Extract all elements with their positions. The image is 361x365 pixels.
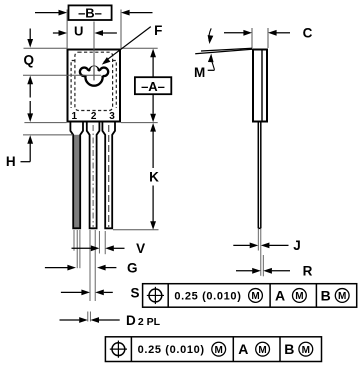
svg-text:B: B <box>321 287 331 303</box>
svg-text:F: F <box>154 23 162 38</box>
svg-text:U: U <box>74 23 83 38</box>
svg-text:M: M <box>251 291 259 302</box>
svg-text:2: 2 <box>91 111 97 122</box>
svg-text:R: R <box>303 263 313 278</box>
svg-text:2 PL: 2 PL <box>138 316 161 328</box>
svg-text:D: D <box>126 313 136 328</box>
svg-text:V: V <box>136 241 145 256</box>
svg-text:1: 1 <box>72 111 78 122</box>
svg-text:S: S <box>130 285 139 300</box>
svg-text:Q: Q <box>24 52 35 67</box>
svg-text:M: M <box>258 345 266 356</box>
svg-text:M: M <box>302 345 310 356</box>
svg-text:A: A <box>238 341 248 357</box>
svg-text:C: C <box>303 26 313 41</box>
svg-text:M: M <box>215 345 223 356</box>
svg-text:–B–: –B– <box>78 6 102 21</box>
svg-text:M: M <box>194 65 205 80</box>
svg-text:B: B <box>284 341 294 357</box>
svg-text:K: K <box>149 169 159 184</box>
svg-text:J: J <box>293 238 301 253</box>
svg-text:H: H <box>6 154 16 169</box>
svg-text:0.25 (0.010): 0.25 (0.010) <box>138 344 205 356</box>
svg-text:M: M <box>295 291 303 302</box>
svg-text:G: G <box>127 261 138 276</box>
svg-text:3: 3 <box>109 111 115 122</box>
svg-text:–A–: –A– <box>141 79 165 94</box>
svg-text:0.25 (0.010): 0.25 (0.010) <box>174 290 241 302</box>
svg-text:A: A <box>275 287 285 303</box>
svg-text:M: M <box>338 291 346 302</box>
